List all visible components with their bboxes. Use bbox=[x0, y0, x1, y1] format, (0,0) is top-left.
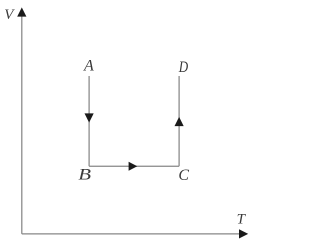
V axis arrowhead bbox=[17, 7, 26, 16]
wire C to D bbox=[178, 76, 180, 166]
arrowhead right on B-C bbox=[129, 162, 138, 171]
T axis arrowhead bbox=[239, 229, 248, 238]
V axis (vertical) bbox=[21, 15, 23, 234]
svg-text:D: D bbox=[178, 59, 189, 76]
arrowhead up on C-D bbox=[175, 117, 184, 126]
wire A to B bbox=[88, 76, 90, 166]
T axis (horizontal) bbox=[22, 233, 241, 235]
svg-text:C: C bbox=[178, 167, 189, 184]
svg-text:A: A bbox=[83, 58, 94, 75]
svg-text:V: V bbox=[4, 7, 15, 23]
svg-text:B: B bbox=[78, 167, 91, 184]
arrowhead down on A-B bbox=[85, 113, 94, 122]
svg-text:T: T bbox=[237, 211, 247, 227]
wire B to C bbox=[89, 165, 179, 167]
